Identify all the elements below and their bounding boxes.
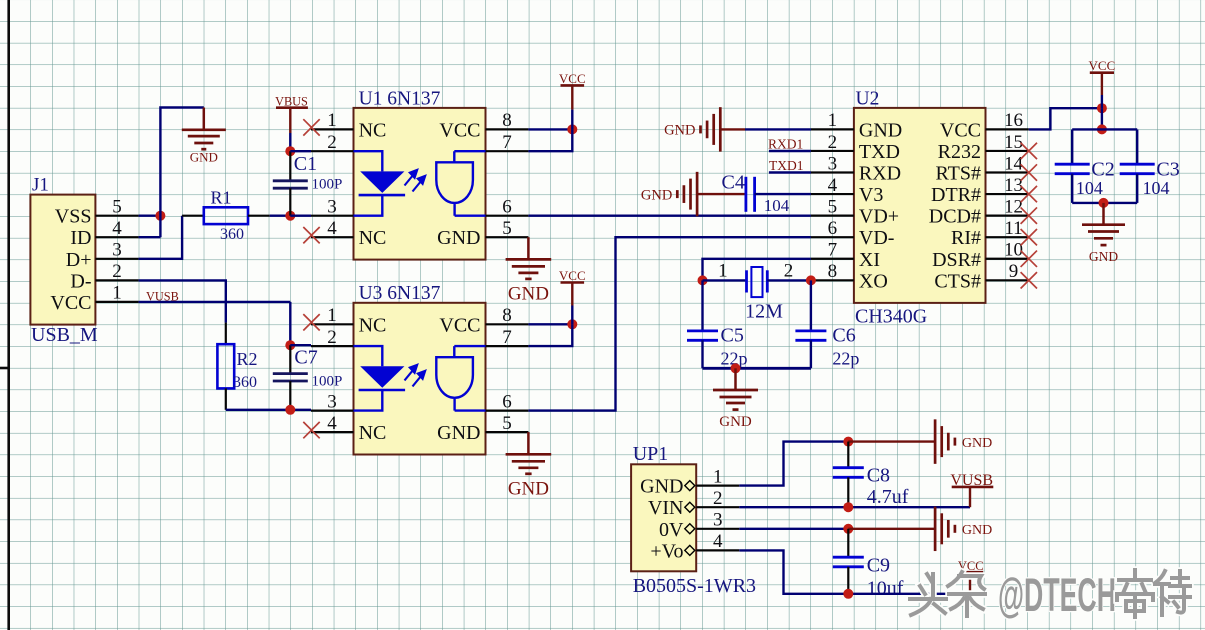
node VSS junction	[155, 211, 165, 221]
wire UP1 GND pin to top rail	[739, 442, 848, 486]
capacitor C1	[289, 151, 291, 181]
svg-text:NC: NC	[359, 422, 387, 444]
UP1 pin stubs	[696, 486, 739, 551]
node U1 VCC	[567, 124, 577, 134]
svg-text:4: 4	[713, 531, 723, 552]
wire C4 to U2 V3 pin	[755, 193, 811, 195]
svg-text:UP1: UP1	[633, 443, 669, 465]
wire U3 pin8 to VCC node	[528, 323, 572, 325]
optocoupler U3 6N137	[354, 303, 486, 455]
optocoupler U1 6N137	[354, 108, 486, 260]
svg-text:4.7uf: 4.7uf	[867, 486, 909, 508]
resistor R2	[225, 323, 227, 345]
svg-text:U1 6N137: U1 6N137	[359, 88, 441, 109]
gate wire pin7	[454, 345, 485, 347]
node crystal pin2 XO	[806, 275, 816, 285]
wire junction up to GND	[160, 108, 203, 238]
capacitor C3	[1120, 164, 1155, 174]
wire rail to C2	[1071, 129, 1073, 164]
node capacitor ground	[1099, 198, 1109, 208]
svg-text:R2: R2	[237, 349, 258, 369]
svg-text:2: 2	[327, 327, 337, 348]
crystal Y1 12M	[747, 267, 768, 297]
wire crystal ground rail	[703, 367, 811, 370]
wire capacitor top rail	[1072, 128, 1137, 130]
wire node to U1 pin3	[290, 214, 311, 216]
photodetector gate	[436, 346, 473, 411]
svg-text:2: 2	[112, 261, 122, 282]
svg-text:GND: GND	[859, 119, 902, 141]
svg-text:GND: GND	[962, 523, 992, 538]
svg-text:6: 6	[502, 391, 512, 412]
node C7 top	[285, 340, 295, 350]
U2 pin names right	[929, 119, 981, 292]
LED output line	[354, 390, 383, 411]
node VCC capacitor rail	[1097, 124, 1107, 134]
svg-text:360: 360	[220, 226, 244, 243]
svg-text:B0505S-1WR3: B0505S-1WR3	[633, 575, 756, 597]
DC-DC converter UP1 B0505S-1WR3	[631, 464, 696, 571]
wire GND bar to U2 pin1	[745, 128, 811, 130]
svg-text:VCC: VCC	[50, 292, 91, 314]
LED triangle	[360, 171, 404, 193]
svg-text:D-: D-	[70, 270, 91, 292]
watermark toutiao @DTECH	[910, 572, 985, 616]
svg-text:10: 10	[1004, 240, 1023, 261]
U2 pin numbers left 1-8	[828, 110, 838, 282]
wire junction down to ID pin	[139, 236, 161, 238]
ground GND below U1 pin5	[527, 237, 530, 259]
wire R2 bottom rail	[226, 409, 311, 411]
pin numbers right 8 7 6 5	[502, 110, 512, 239]
svg-text:8: 8	[502, 110, 512, 131]
wire U2 pin16 to VCC node	[1029, 108, 1102, 129]
svg-text:RTS#: RTS#	[936, 163, 981, 185]
svg-text:GND: GND	[664, 123, 695, 139]
svg-text:USB_M: USB_M	[31, 324, 98, 346]
pin numbers right 8 7 6 5	[502, 305, 512, 434]
capacitor C2	[1055, 164, 1090, 174]
svg-text:4: 4	[327, 413, 337, 434]
svg-text:4: 4	[327, 218, 337, 239]
no-connect cross pin1	[303, 119, 319, 135]
pin names	[359, 119, 481, 249]
node C7 bottom	[285, 405, 295, 415]
svg-text:GND: GND	[508, 478, 549, 499]
wire capacitor bottom rail	[1072, 202, 1137, 204]
gate wire pin6	[455, 214, 486, 216]
ground bar GND at U2 pin1	[701, 107, 721, 151]
U2 pin numbers right 16-9	[1004, 110, 1024, 282]
wire VUSB down to U3 pin2 node	[289, 302, 291, 345]
no-connect cross pin4	[303, 227, 319, 243]
svg-text:15: 15	[1004, 132, 1023, 153]
svg-text:VSS: VSS	[55, 206, 92, 228]
LED cathode bar	[359, 389, 406, 392]
node VCC right upper	[1097, 103, 1107, 113]
wire VCC pin VUSB net	[139, 301, 291, 303]
wire R1 to node	[270, 214, 291, 216]
LED input line	[354, 151, 383, 171]
capacitor C6	[795, 331, 826, 340]
svg-text:5: 5	[502, 218, 512, 239]
svg-text:1: 1	[112, 283, 122, 304]
photodetector gate	[436, 151, 473, 216]
svg-text:U2: U2	[856, 88, 880, 109]
svg-text:7: 7	[502, 327, 512, 348]
wire VCC down to capacitor rail	[1101, 108, 1103, 129]
svg-text:DCD#: DCD#	[929, 206, 981, 228]
J1 pin stubs	[95, 216, 138, 302]
svg-text:3: 3	[713, 510, 723, 531]
light arrows	[405, 365, 426, 387]
svg-text:104: 104	[764, 196, 790, 215]
svg-text:4: 4	[828, 175, 838, 196]
wire GND bar to C4	[697, 193, 746, 195]
svg-text:VIN: VIN	[648, 497, 684, 519]
svg-text:1: 1	[828, 110, 838, 131]
svg-text:C1: C1	[294, 153, 317, 175]
wire C2 to bottom rail	[1071, 174, 1073, 203]
node VBUS/C1/U1pin2	[285, 146, 295, 156]
pin stubs	[311, 129, 528, 237]
svg-text:XI: XI	[859, 249, 880, 271]
wire RXD pin net TXD1	[769, 171, 811, 173]
U2 pin stubs	[811, 129, 1029, 280]
wire VSS to junction	[139, 214, 161, 216]
svg-text:100P: 100P	[312, 177, 343, 193]
node R1/C1/U1pin3	[285, 211, 295, 221]
svg-text:13: 13	[1004, 175, 1023, 196]
wire C5 to rail	[701, 340, 703, 368]
wire XI to crystal	[703, 259, 811, 281]
svg-text:5: 5	[112, 197, 122, 218]
svg-text:GND: GND	[640, 476, 683, 498]
svg-text:11: 11	[1004, 218, 1022, 239]
svg-text:GND: GND	[1089, 249, 1118, 264]
svg-text:10uf: 10uf	[867, 578, 904, 600]
capacitor C4	[746, 177, 755, 212]
svg-text:2: 2	[828, 132, 838, 153]
UP1 pin diamonds	[685, 481, 695, 556]
LED cathode bar	[359, 194, 406, 197]
svg-text:C5: C5	[721, 325, 744, 347]
svg-text:2: 2	[784, 261, 794, 282]
U2 pin names left	[859, 119, 902, 292]
wire U1 pin7 to VCC node	[528, 129, 572, 151]
svg-text:0V: 0V	[659, 519, 684, 541]
svg-text:D+: D+	[66, 249, 92, 271]
capacitor C5	[687, 331, 718, 340]
ground GND below U3 pin5	[527, 432, 530, 454]
svg-text:6: 6	[502, 197, 512, 218]
svg-text:12M: 12M	[745, 301, 783, 323]
svg-text:7: 7	[502, 132, 512, 153]
svg-text:C7: C7	[294, 347, 317, 369]
svg-text:1: 1	[718, 261, 728, 282]
svg-text:NC: NC	[359, 314, 387, 336]
svg-text:104: 104	[1076, 178, 1103, 198]
UP1 pin numbers 1-4	[713, 466, 723, 552]
svg-text:VCC: VCC	[1089, 58, 1116, 73]
wire U3 pin7 to VCC node	[528, 324, 572, 346]
wire UP1 0V pin to ground bar	[739, 528, 848, 530]
svg-text:TXD1: TXD1	[769, 158, 804, 173]
wire node to U3 pin2	[290, 344, 311, 346]
svg-text:3: 3	[327, 391, 337, 412]
ground GND below crystal	[734, 368, 737, 390]
wire node to U1 pin2	[290, 150, 311, 152]
svg-text:1: 1	[327, 305, 337, 326]
svg-text:12: 12	[1004, 196, 1023, 217]
svg-text:GND: GND	[641, 187, 672, 203]
svg-text:GND: GND	[437, 227, 480, 249]
svg-text:VCC: VCC	[559, 268, 586, 283]
svg-text:VCC: VCC	[439, 314, 480, 336]
wire C6 to rail	[810, 340, 812, 368]
svg-text:CTS#: CTS#	[934, 270, 981, 292]
svg-text:3: 3	[112, 240, 122, 261]
gate wire pin6	[455, 409, 486, 411]
svg-text:J1: J1	[32, 175, 49, 196]
LED output line	[354, 195, 383, 216]
svg-text:R1: R1	[211, 188, 232, 208]
IC U2 CH340G	[854, 108, 986, 303]
ground bar GND right of C9	[935, 507, 955, 552]
svg-text:5: 5	[502, 413, 512, 434]
wire UP1 VIN pin to VUSB	[739, 506, 970, 508]
svg-text:@DTECH: @DTECH	[998, 568, 1116, 621]
svg-text:TXD: TXD	[859, 141, 900, 163]
no-connect cross pin1	[303, 314, 319, 330]
svg-text:8: 8	[828, 261, 838, 282]
svg-text:6: 6	[828, 218, 838, 239]
svg-text:DSR#: DSR#	[932, 249, 981, 271]
svg-text:5: 5	[828, 196, 838, 217]
light arrows	[405, 170, 426, 192]
svg-text:NC: NC	[359, 119, 387, 141]
svg-text:GND: GND	[508, 283, 549, 304]
wire TXD pin net RXD1	[769, 150, 811, 152]
svg-text:104: 104	[1143, 178, 1170, 198]
wire XO to C6	[810, 280, 812, 331]
wire U1 pin8 to VCC node	[528, 128, 572, 130]
svg-text:U3 6N137: U3 6N137	[359, 283, 441, 304]
ground GND below C2 C3	[1102, 203, 1105, 225]
svg-text:9: 9	[1009, 261, 1019, 282]
wire crystal pin1	[703, 279, 747, 281]
svg-text:VCC: VCC	[559, 71, 586, 86]
wire D+ to R1	[139, 216, 183, 259]
svg-text:VUSB: VUSB	[146, 290, 179, 304]
svg-text:C9: C9	[867, 555, 890, 577]
wire U3 pin6 to U2 VD-	[528, 237, 811, 410]
pin stubs	[311, 324, 528, 432]
svg-text:22p: 22p	[832, 349, 859, 369]
svg-text:RI#: RI#	[951, 227, 981, 249]
svg-text:GND: GND	[719, 414, 752, 430]
UP1 pin names	[640, 476, 684, 563]
svg-text:RXD1: RXD1	[768, 136, 803, 151]
node C9 top 0V	[843, 524, 853, 534]
wire C3 to bottom rail	[1136, 174, 1138, 203]
svg-text:VCC: VCC	[439, 119, 480, 141]
wire crystal pin2	[767, 279, 811, 281]
wire 0V to ground bar	[848, 528, 934, 530]
svg-text:16: 16	[1004, 110, 1023, 131]
wire rail to ground bar	[848, 440, 934, 442]
svg-text:VCC: VCC	[940, 119, 981, 141]
node C8 bottom VIN	[843, 502, 853, 512]
ground bar GND right of C8	[935, 419, 955, 464]
wire D- to R2	[139, 280, 226, 322]
no-connect crosses U2 pins 15-9	[1021, 143, 1037, 159]
svg-text:2: 2	[327, 132, 337, 153]
node U3 VCC	[567, 319, 577, 329]
LED triangle	[360, 366, 404, 388]
J1 pin names	[50, 206, 91, 314]
svg-text:4: 4	[112, 218, 122, 239]
svg-text:360: 360	[233, 374, 257, 391]
no-connect cross pin4	[303, 422, 319, 438]
svg-text:1: 1	[713, 466, 723, 487]
svg-text:R232: R232	[938, 141, 981, 163]
wire UP1 +Vo pin to VCC	[739, 550, 970, 593]
svg-text:C8: C8	[867, 465, 890, 487]
resistor R1	[182, 215, 204, 217]
svg-text:GND: GND	[437, 422, 480, 444]
svg-text:XO: XO	[859, 270, 888, 292]
svg-text:14: 14	[1004, 153, 1024, 174]
svg-text:VD-: VD-	[859, 227, 895, 249]
svg-text:NC: NC	[359, 227, 387, 249]
svg-text:3: 3	[828, 153, 838, 174]
svg-text:C4: C4	[722, 172, 745, 194]
svg-text:GND: GND	[962, 436, 992, 451]
wire rail to C3	[1136, 129, 1138, 164]
ground bar GND at C4	[677, 172, 697, 217]
node C9 bottom +Vo	[843, 589, 853, 599]
LED input line	[354, 346, 383, 366]
svg-text:RXD: RXD	[859, 163, 901, 185]
svg-text:VD+: VD+	[859, 206, 899, 228]
node crystal pin1	[698, 275, 708, 285]
svg-text:C6: C6	[832, 325, 855, 347]
J1 pin numbers 5 4 3 2 1	[112, 197, 122, 304]
gate wire pin7	[454, 150, 485, 152]
ground GND top-left	[203, 108, 206, 130]
svg-text:DTR#: DTR#	[931, 184, 981, 206]
svg-text:8: 8	[502, 305, 512, 326]
pin numbers left 1 2 3 4	[327, 305, 337, 434]
svg-text:GND: GND	[190, 150, 218, 165]
svg-text:2: 2	[713, 488, 723, 509]
svg-text:CH340G: CH340G	[855, 306, 927, 328]
svg-text:7: 7	[828, 240, 838, 261]
svg-text:ID: ID	[70, 227, 91, 249]
capacitor C9	[847, 529, 849, 557]
svg-text:+Vo: +Vo	[650, 540, 683, 562]
svg-text:V3: V3	[859, 184, 883, 206]
wire crystal to C5	[701, 280, 703, 331]
capacitor C8	[847, 442, 849, 468]
wire U1 pin6 to U2 VD+	[528, 214, 811, 216]
sheet border	[0, 0, 9, 630]
svg-text:3: 3	[327, 197, 337, 218]
node crystal ground	[731, 363, 741, 373]
svg-text:1: 1	[327, 110, 337, 131]
node C8 top	[843, 437, 853, 447]
capacitor C7	[289, 345, 291, 373]
connector J1 USB_M	[30, 195, 95, 325]
svg-text:100P: 100P	[312, 374, 343, 390]
pin numbers left 1 2 3 4	[327, 110, 337, 239]
pin names	[359, 314, 481, 444]
